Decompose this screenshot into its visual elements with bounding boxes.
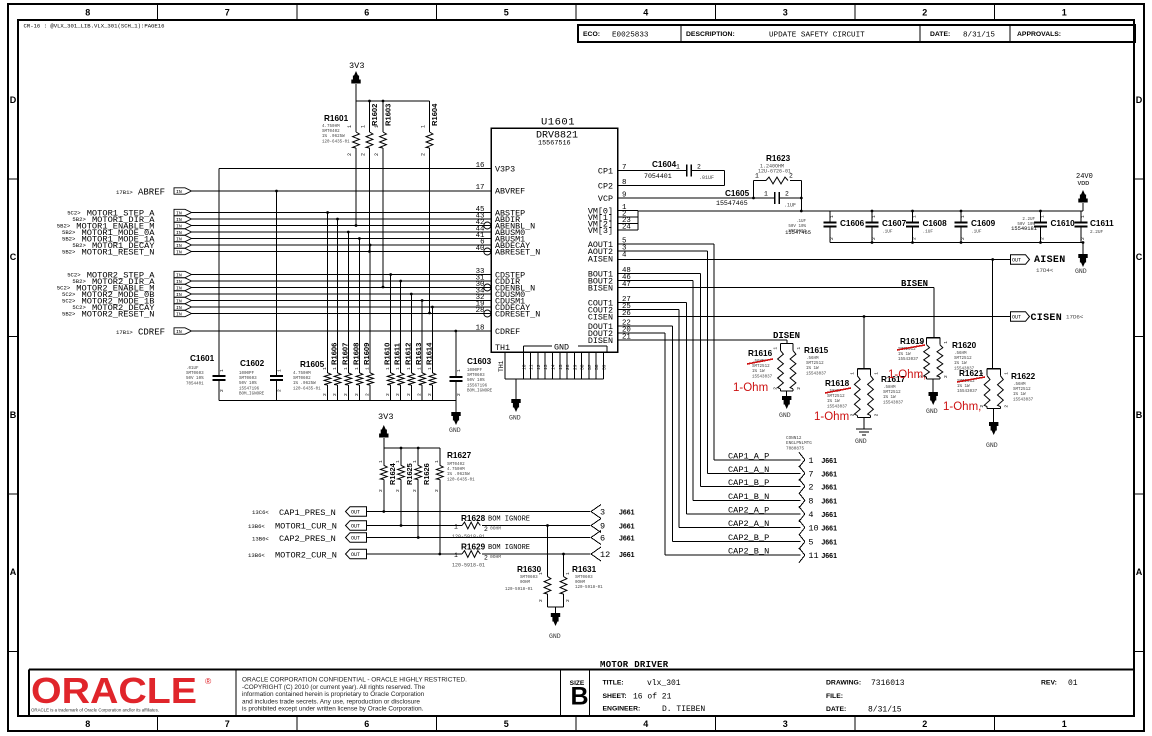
svg-text:2: 2 bbox=[1040, 237, 1046, 240]
svg-text:13B6<: 13B6< bbox=[252, 536, 269, 543]
wire V3P3 pin16 to C1601 bbox=[219, 168, 491, 170]
wire BOUT1 to J661 bbox=[618, 273, 701, 275]
svg-text:R1629: R1629 bbox=[461, 543, 486, 552]
svg-text:vlx_301: vlx_301 bbox=[647, 679, 681, 688]
svg-text:7316013: 7316013 bbox=[871, 679, 905, 688]
svg-text:2: 2 bbox=[565, 599, 571, 602]
ground CISEN pair earth symbol bbox=[863, 417, 865, 429]
resistor R1614 bbox=[431, 307, 433, 373]
svg-text:DESCRIPTION:: DESCRIPTION: bbox=[686, 31, 735, 38]
svg-text:13: 13 bbox=[543, 364, 549, 370]
svg-text:SMT0603: SMT0603 bbox=[467, 374, 485, 378]
svg-text:0OHM: 0OHM bbox=[490, 554, 501, 560]
svg-text:15543037: 15543037 bbox=[957, 390, 978, 394]
svg-text:2: 2 bbox=[789, 173, 793, 180]
svg-text:CAP2_B_N: CAP2_B_N bbox=[728, 547, 769, 557]
svg-text:2: 2 bbox=[277, 389, 283, 392]
svg-text:C1601: C1601 bbox=[190, 354, 215, 363]
svg-text:15547465: 15547465 bbox=[716, 200, 748, 207]
wire R1604 to MOTOR2_RESET_N bbox=[429, 148, 431, 313]
svg-text:AISEN: AISEN bbox=[588, 255, 613, 265]
svg-text:IN: IN bbox=[176, 250, 182, 256]
svg-text:is prohibited except under wri: is prohibited except under written licen… bbox=[242, 706, 424, 713]
svg-text:.56HM: .56HM bbox=[954, 352, 967, 356]
svg-text:2: 2 bbox=[395, 489, 401, 492]
wire MOTOR2_DIR_A bbox=[192, 280, 492, 282]
svg-text:7054401: 7054401 bbox=[186, 382, 204, 386]
svg-text:2: 2 bbox=[922, 8, 927, 18]
svg-text:1: 1 bbox=[1062, 719, 1067, 729]
svg-text:1-Ohm: 1-Ohm bbox=[814, 411, 849, 423]
svg-text:2: 2 bbox=[385, 393, 391, 396]
svg-text:50V 10%: 50V 10% bbox=[467, 379, 485, 383]
svg-text:4: 4 bbox=[808, 510, 813, 520]
resistor R1601 bbox=[355, 101, 357, 132]
svg-text:15567196: 15567196 bbox=[467, 384, 488, 388]
ground AISEN pair bbox=[993, 409, 995, 422]
svg-text:VDD: VDD bbox=[1078, 181, 1090, 187]
svg-text:1: 1 bbox=[912, 215, 918, 218]
svg-text:1: 1 bbox=[565, 572, 571, 575]
svg-text:1: 1 bbox=[454, 552, 458, 559]
svg-text:C1603: C1603 bbox=[467, 357, 492, 366]
svg-text:A: A bbox=[1136, 567, 1143, 577]
svg-text:2: 2 bbox=[354, 393, 360, 396]
svg-text:C1604: C1604 bbox=[652, 160, 677, 169]
svg-text:15543037: 15543037 bbox=[1013, 398, 1034, 402]
svg-text:30: 30 bbox=[580, 364, 586, 370]
svg-text:0OHM: 0OHM bbox=[490, 526, 501, 532]
svg-text:2: 2 bbox=[374, 153, 380, 156]
svg-text:4.750HM: 4.750HM bbox=[322, 125, 340, 129]
svg-text:VM[3]: VM[3] bbox=[588, 226, 613, 236]
svg-text:OUT: OUT bbox=[351, 524, 360, 530]
svg-text:120-6435-01: 120-6435-01 bbox=[322, 140, 350, 144]
svg-text:5B2>: 5B2> bbox=[62, 311, 76, 318]
svg-text:13B6<: 13B6< bbox=[248, 552, 265, 559]
svg-text:R1609: R1609 bbox=[362, 343, 371, 365]
svg-text:1% .0625W: 1% .0625W bbox=[322, 135, 345, 139]
svg-text:2: 2 bbox=[1080, 237, 1086, 240]
svg-text:1: 1 bbox=[871, 215, 877, 218]
svg-text:2: 2 bbox=[773, 387, 779, 390]
svg-text:.1UF: .1UF bbox=[882, 230, 893, 235]
svg-text:17B1>: 17B1> bbox=[116, 329, 133, 336]
svg-text:J661: J661 bbox=[619, 524, 635, 531]
svg-text:2: 2 bbox=[378, 489, 384, 492]
svg-text:B: B bbox=[571, 683, 589, 711]
svg-text:ENGLPNLMTG: ENGLPNLMTG bbox=[786, 441, 812, 446]
U1601 thermal pad TH1 label and GND bracket bbox=[523, 345, 552, 347]
resistor R1608 bbox=[358, 239, 360, 373]
ground R1630 R1631 bbox=[548, 606, 564, 608]
wire MOTOR1_DIR_A bbox=[192, 218, 492, 220]
svg-text:R1616: R1616 bbox=[748, 349, 773, 358]
svg-text:10: 10 bbox=[521, 364, 527, 370]
svg-text:CP1: CP1 bbox=[598, 167, 613, 177]
svg-text:15543037: 15543037 bbox=[752, 375, 773, 379]
ground DISEN pair bbox=[786, 391, 788, 396]
capacitor C1605 bbox=[618, 197, 775, 199]
svg-text:1: 1 bbox=[374, 125, 380, 128]
svg-text:J661: J661 bbox=[821, 484, 837, 491]
svg-text:1: 1 bbox=[755, 173, 759, 180]
svg-text:1: 1 bbox=[417, 367, 423, 370]
svg-text:D. TIEBEN: D. TIEBEN bbox=[662, 705, 705, 714]
svg-text:R1601: R1601 bbox=[324, 114, 349, 123]
svg-text:R1605: R1605 bbox=[300, 360, 325, 369]
svg-text:1: 1 bbox=[796, 347, 802, 350]
svg-text:ABRESET_N: ABRESET_N bbox=[495, 248, 540, 258]
svg-text:10: 10 bbox=[808, 524, 818, 534]
capacitor C1606 bbox=[829, 211, 831, 223]
svg-text:CISEN: CISEN bbox=[1031, 313, 1063, 324]
svg-text:1% 1W: 1% 1W bbox=[954, 362, 967, 366]
wire DOUT1 to J661 bbox=[618, 325, 673, 327]
svg-text:01: 01 bbox=[1068, 679, 1078, 688]
svg-text:AISEN: AISEN bbox=[1034, 255, 1066, 266]
svg-text:8: 8 bbox=[85, 719, 90, 729]
svg-text:R1628: R1628 bbox=[461, 514, 486, 523]
svg-text:FILE:: FILE: bbox=[826, 693, 843, 700]
svg-text:J661: J661 bbox=[821, 553, 837, 560]
wire MOTOR1_STEP_A bbox=[192, 212, 492, 214]
svg-text:15549181: 15549181 bbox=[1011, 226, 1037, 232]
svg-text:SMT2512: SMT2512 bbox=[1013, 388, 1031, 392]
svg-text:57: 57 bbox=[587, 364, 593, 370]
svg-text:1% 1W: 1% 1W bbox=[827, 400, 840, 404]
svg-text:IN: IN bbox=[176, 312, 182, 318]
svg-text:DISEN: DISEN bbox=[773, 331, 800, 341]
ground BISEN pair bbox=[932, 379, 934, 392]
node CISEN out port bbox=[1011, 312, 1030, 322]
svg-text:REV:: REV: bbox=[1041, 680, 1057, 687]
svg-text:C1610: C1610 bbox=[1051, 219, 1076, 228]
capacitor C1601 bbox=[213, 375, 226, 377]
wire MOTOR2_MODE_0B bbox=[192, 293, 492, 295]
svg-text:R1615: R1615 bbox=[804, 346, 829, 355]
svg-text:1: 1 bbox=[322, 367, 328, 370]
svg-text:2: 2 bbox=[538, 599, 544, 602]
svg-text:15543037: 15543037 bbox=[883, 401, 904, 405]
svg-text:14: 14 bbox=[550, 364, 556, 370]
svg-text:1: 1 bbox=[421, 125, 427, 128]
svg-text:SMT2512: SMT2512 bbox=[954, 357, 972, 361]
svg-text:ABREF: ABREF bbox=[138, 188, 165, 198]
svg-text:2: 2 bbox=[484, 526, 488, 533]
svg-text:R1606: R1606 bbox=[330, 343, 339, 365]
wire MOTOR2_RESET_N bbox=[192, 313, 492, 315]
svg-text:SMT0603: SMT0603 bbox=[520, 576, 538, 580]
svg-text:DATE:: DATE: bbox=[930, 31, 950, 38]
wire R1601 to MOTOR1_ENABLE_M bbox=[355, 148, 357, 226]
svg-text:3: 3 bbox=[783, 8, 788, 18]
svg-text:1: 1 bbox=[829, 215, 835, 218]
resistor R1623 bbox=[753, 181, 755, 199]
wire MOTOR2_STEP_A bbox=[192, 274, 492, 276]
svg-text:C: C bbox=[10, 252, 17, 262]
svg-text:15543037: 15543037 bbox=[827, 405, 848, 409]
svg-text:1: 1 bbox=[1040, 215, 1046, 218]
svg-text:MOTOR2_CUR_N: MOTOR2_CUR_N bbox=[275, 551, 337, 561]
svg-text:12U-6726-01: 12U-6726-01 bbox=[758, 169, 791, 175]
resistor R1631 bbox=[563, 554, 565, 577]
svg-text:2: 2 bbox=[808, 482, 813, 492]
svg-text:OUT: OUT bbox=[1012, 258, 1021, 264]
svg-text:1% 1W: 1% 1W bbox=[957, 385, 970, 389]
title block cell dividers bbox=[28, 670, 30, 716]
svg-text:C: C bbox=[1136, 252, 1143, 262]
svg-text:1: 1 bbox=[1003, 372, 1009, 375]
svg-text:GND: GND bbox=[1075, 268, 1087, 275]
svg-text:C1607: C1607 bbox=[882, 219, 907, 228]
wire MOTOR1_MODE_1A bbox=[192, 238, 492, 240]
svg-text:UPDATE SAFETY CIRCUIT: UPDATE SAFETY CIRCUIT bbox=[769, 32, 865, 40]
svg-text:C1602: C1602 bbox=[240, 359, 265, 368]
svg-text:1: 1 bbox=[378, 460, 384, 463]
svg-text:1-Ohm,: 1-Ohm, bbox=[888, 369, 926, 381]
svg-text:15547465: 15547465 bbox=[785, 230, 811, 236]
wire 3v3 lower rail bbox=[384, 447, 440, 449]
svg-text:4.750HM: 4.750HM bbox=[447, 468, 465, 472]
svg-text:1: 1 bbox=[773, 347, 779, 350]
svg-text:2: 2 bbox=[912, 237, 918, 240]
resistor R1609 bbox=[369, 245, 371, 373]
svg-text:CAP1_A_P: CAP1_A_P bbox=[728, 451, 769, 461]
resistor pair R1618 R1617 (CISEN) bbox=[863, 317, 865, 369]
svg-text:ORACLE: ORACLE bbox=[31, 670, 197, 711]
ECO revision strip box bbox=[578, 25, 1135, 42]
zone column dividers bottom strip bbox=[157, 716, 159, 731]
svg-text:1: 1 bbox=[395, 367, 401, 370]
wire COUT1 to J661 bbox=[618, 302, 687, 304]
svg-text:R1618: R1618 bbox=[825, 379, 850, 388]
svg-text:1: 1 bbox=[764, 191, 768, 198]
svg-text:R1621: R1621 bbox=[959, 369, 984, 378]
resistor R1610 bbox=[390, 275, 392, 373]
wire MOTOR2_MODE_1B bbox=[192, 300, 492, 302]
svg-text:5: 5 bbox=[808, 538, 813, 548]
wire CISEN bbox=[618, 316, 1011, 318]
svg-text:2: 2 bbox=[849, 413, 855, 416]
capacitor C1602 bbox=[270, 375, 283, 377]
svg-text:SMT0603: SMT0603 bbox=[186, 372, 204, 376]
wire DOUT2 to J661 bbox=[618, 332, 666, 334]
svg-text:R1611: R1611 bbox=[393, 342, 402, 365]
svg-text:R1614: R1614 bbox=[424, 342, 433, 365]
svg-text:R1619: R1619 bbox=[900, 337, 925, 346]
resistor pair R1619 R1620 (BISEN) bbox=[927, 337, 940, 339]
wire MOTOR1_RESET_N bbox=[192, 251, 492, 253]
svg-text:MOTOR2_RESET_N: MOTOR2_RESET_N bbox=[82, 310, 155, 320]
svg-text:.58HM: .58HM bbox=[883, 386, 896, 390]
ground bypass bus bbox=[455, 401, 457, 413]
resistor R1605 bbox=[327, 213, 329, 373]
svg-text:2: 2 bbox=[421, 153, 427, 156]
svg-text:50V 10%: 50V 10% bbox=[239, 382, 257, 386]
svg-text:CAP2_A_P: CAP2_A_P bbox=[728, 506, 769, 516]
svg-text:1% 1W: 1% 1W bbox=[806, 367, 819, 371]
svg-text:2: 2 bbox=[412, 489, 418, 492]
wire AOUT2 to J661 bbox=[618, 250, 708, 252]
svg-text:2: 2 bbox=[406, 393, 412, 396]
svg-text:2: 2 bbox=[960, 237, 966, 240]
svg-text:15547196: 15547196 bbox=[239, 387, 260, 391]
svg-text:.1UF: .1UF bbox=[784, 203, 796, 209]
wire CAP2_PRES_N bbox=[367, 537, 591, 539]
svg-text:J661: J661 bbox=[619, 510, 635, 517]
svg-text:4: 4 bbox=[643, 719, 648, 729]
svg-text:1: 1 bbox=[219, 369, 225, 372]
svg-text:12: 12 bbox=[600, 550, 610, 560]
svg-text:ORACLE is a trademark of Oracl: ORACLE is a trademark of Oracle Corporat… bbox=[31, 708, 159, 713]
svg-text:1% .0625W: 1% .0625W bbox=[293, 382, 316, 386]
wire MOTOR1_ENABLE_M bbox=[192, 225, 492, 227]
svg-text:U1601: U1601 bbox=[541, 117, 575, 129]
wire MOTOR2_CUR_N + resistor R1629 bbox=[367, 553, 462, 555]
svg-text:R1627: R1627 bbox=[447, 451, 472, 460]
svg-text:17D4<: 17D4< bbox=[1036, 267, 1054, 274]
svg-text:58: 58 bbox=[594, 364, 600, 370]
svg-text:1: 1 bbox=[849, 372, 855, 375]
svg-text:1: 1 bbox=[676, 164, 680, 171]
svg-text:R1613: R1613 bbox=[414, 343, 423, 365]
resistor R1626 bbox=[417, 448, 419, 465]
svg-text:2: 2 bbox=[1003, 405, 1009, 408]
svg-text:2: 2 bbox=[943, 375, 949, 378]
wire AOUT1 to J661 bbox=[618, 243, 715, 245]
svg-text:SMT2512: SMT2512 bbox=[883, 391, 901, 395]
svg-text:16 of 21: 16 of 21 bbox=[633, 693, 672, 702]
svg-text:6: 6 bbox=[364, 8, 369, 18]
svg-text:2: 2 bbox=[332, 393, 338, 396]
wire BOUT2 to J661 bbox=[618, 280, 694, 282]
svg-text:R1603: R1603 bbox=[384, 104, 393, 126]
wire DISEN bbox=[618, 339, 788, 341]
svg-text:E0025833: E0025833 bbox=[612, 32, 649, 40]
svg-text:R1604: R1604 bbox=[430, 103, 439, 126]
svg-text:J661: J661 bbox=[619, 536, 635, 543]
svg-text:2: 2 bbox=[417, 393, 423, 396]
svg-text:1: 1 bbox=[1080, 215, 1086, 218]
svg-text:1: 1 bbox=[943, 341, 949, 344]
svg-text:.1UF: .1UF bbox=[796, 220, 807, 224]
svg-text:J661: J661 bbox=[821, 526, 837, 533]
svg-text:1: 1 bbox=[343, 367, 349, 370]
resistor R1606 bbox=[337, 219, 339, 373]
svg-text:and includes trade secrets. A: and includes trade secrets. Any use, rep… bbox=[242, 698, 420, 705]
svg-text:1: 1 bbox=[361, 125, 367, 128]
svg-text:IN: IN bbox=[176, 329, 182, 335]
svg-text:2: 2 bbox=[322, 393, 328, 396]
svg-text:120-5918-01: 120-5918-01 bbox=[505, 588, 533, 592]
svg-text:1: 1 bbox=[354, 367, 360, 370]
svg-text:BOM_IGNORE: BOM_IGNORE bbox=[239, 392, 265, 396]
svg-text:1% 1W: 1% 1W bbox=[752, 370, 765, 374]
svg-text:15: 15 bbox=[558, 364, 564, 370]
svg-text:information contained herein i: information contained herein is propriet… bbox=[242, 691, 425, 698]
svg-text:7: 7 bbox=[225, 719, 230, 729]
svg-text:0OHM: 0OHM bbox=[520, 581, 531, 585]
svg-text:GND: GND bbox=[449, 427, 461, 434]
connector J661 left pins bbox=[591, 505, 601, 512]
svg-text:29: 29 bbox=[572, 364, 578, 370]
svg-text:DATE:: DATE: bbox=[826, 706, 846, 713]
svg-text:2: 2 bbox=[347, 153, 353, 156]
svg-text:1: 1 bbox=[456, 369, 462, 372]
svg-text:GND: GND bbox=[779, 412, 791, 419]
svg-text:1: 1 bbox=[538, 572, 544, 575]
svg-text:ECO:: ECO: bbox=[583, 31, 600, 38]
svg-text:SMT0603: SMT0603 bbox=[575, 576, 593, 580]
svg-text:1-Ohm,: 1-Ohm, bbox=[943, 401, 981, 413]
svg-text:7: 7 bbox=[225, 8, 230, 18]
capacitor C1607 bbox=[871, 211, 873, 223]
svg-text:IN: IN bbox=[176, 189, 182, 195]
svg-text:7: 7 bbox=[808, 469, 813, 479]
svg-text:GND: GND bbox=[509, 415, 521, 422]
svg-text:R1624: R1624 bbox=[388, 462, 397, 485]
svg-text:SMT0603: SMT0603 bbox=[239, 377, 257, 381]
svg-text:R1610: R1610 bbox=[383, 343, 392, 365]
wire MOTOR1_CUR_N + resistor R1628 bbox=[367, 525, 462, 527]
svg-text:R1607: R1607 bbox=[340, 343, 349, 365]
capacitor C1611 bbox=[1080, 211, 1082, 223]
svg-text:4: 4 bbox=[622, 252, 627, 260]
svg-text:12: 12 bbox=[536, 364, 542, 370]
svg-text:-COPYRIGHT (C) 2010 (or curren: -COPYRIGHT (C) 2010 (or current year). A… bbox=[242, 684, 425, 691]
capacitor C1603 bbox=[455, 331, 457, 377]
svg-text:17D6<: 17D6< bbox=[1066, 314, 1084, 321]
svg-text:MOTOR1_RESET_N: MOTOR1_RESET_N bbox=[82, 248, 155, 258]
svg-text:R1608: R1608 bbox=[351, 343, 360, 365]
svg-text:BISEN: BISEN bbox=[901, 279, 928, 289]
svg-text:2.2UF: 2.2UF bbox=[1022, 218, 1035, 222]
svg-text:8/31/15: 8/31/15 bbox=[868, 706, 902, 715]
resistor R1603 bbox=[382, 101, 384, 132]
svg-text:8/31/15: 8/31/15 bbox=[963, 32, 995, 40]
svg-text:C1606: C1606 bbox=[840, 219, 865, 228]
U1601 inversion bubbles left pins bbox=[484, 222, 491, 229]
svg-text:13B6<: 13B6< bbox=[248, 523, 265, 530]
wire CDREF to pin18 bbox=[192, 330, 492, 332]
wire MOTOR2_ENABLE_M bbox=[192, 287, 492, 289]
ground cap bank bbox=[1082, 241, 1085, 244]
resistor R1627 bbox=[439, 448, 441, 465]
wire VCP feed down to VM rail bbox=[800, 198, 802, 211]
svg-text:0OHM: 0OHM bbox=[575, 581, 586, 585]
svg-text:SMT0602: SMT0602 bbox=[293, 377, 311, 381]
svg-text:DISEN: DISEN bbox=[588, 336, 613, 346]
svg-text:2: 2 bbox=[365, 393, 371, 396]
svg-text:CP2: CP2 bbox=[598, 182, 613, 192]
resistor R1625 bbox=[400, 448, 402, 465]
title block top border bbox=[29, 668, 1134, 670]
svg-text:ENGINEER:: ENGINEER: bbox=[603, 706, 641, 713]
svg-text:28: 28 bbox=[565, 364, 571, 370]
svg-text:R1612: R1612 bbox=[403, 343, 412, 365]
svg-text:15543037: 15543037 bbox=[806, 372, 827, 376]
svg-text:15567516: 15567516 bbox=[538, 140, 571, 148]
svg-text:7054401: 7054401 bbox=[644, 173, 672, 180]
wire MOTOR2_DECAY bbox=[192, 306, 492, 308]
svg-text:CAP2_PRES_N: CAP2_PRES_N bbox=[279, 534, 336, 544]
svg-text:CAP1_PRES_N: CAP1_PRES_N bbox=[279, 508, 336, 518]
svg-text:J661: J661 bbox=[821, 458, 837, 465]
svg-text:R1623: R1623 bbox=[766, 154, 791, 163]
resistor R1624 bbox=[383, 448, 385, 465]
svg-text:3: 3 bbox=[783, 719, 788, 729]
